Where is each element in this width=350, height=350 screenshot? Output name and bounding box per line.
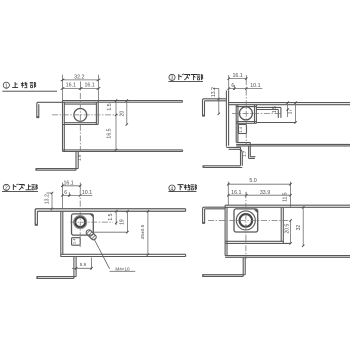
svg-text:16.1: 16.1 <box>84 82 94 88</box>
pocket square <box>234 209 258 232</box>
svg-text:1.4: 1.4 <box>238 126 243 132</box>
label 3 <box>168 74 203 82</box>
step A <box>226 147 240 165</box>
top rail thick double <box>35 209 185 225</box>
svg-text:10.1: 10.1 <box>250 83 260 89</box>
step rail <box>63 149 183 151</box>
dimension lines 32.2 / 16.1 16.1 (panel 1) <box>63 75 99 101</box>
leg2 <box>75 152 77 171</box>
pocket square <box>72 214 94 235</box>
step B + rail2 <box>236 142 250 144</box>
right dimension lines 1.5 / 17 (panel 3) <box>288 103 296 123</box>
rail 1 <box>229 102 350 104</box>
svg-text:20: 20 <box>119 111 125 117</box>
bottom rail <box>61 253 186 255</box>
svg-text:32.2: 32.2 <box>74 74 84 80</box>
svg-text:20.5: 20.5 <box>284 224 290 234</box>
door bottom profile outline (panel 3) <box>202 91 350 168</box>
svg-text:16.1: 16.1 <box>66 82 76 88</box>
svg-text:17: 17 <box>288 109 294 115</box>
svg-text:33.9: 33.9 <box>260 190 270 196</box>
hatched screw clip at 45deg (panel 2) <box>85 229 97 241</box>
door top profile outline (panel 2) <box>35 209 186 279</box>
left hook <box>36 211 38 224</box>
svg-text:10.1: 10.1 <box>82 190 92 196</box>
svg-text:1: 1 <box>5 83 8 89</box>
leg B <box>248 146 250 159</box>
left hook sheet <box>37 102 63 117</box>
screw hole circle (panel 1) <box>74 109 87 122</box>
right dimension lines 1.5 / 19 / 45±0.5 (panel 2) <box>93 211 148 255</box>
right dimension lines 20.5 / 32 (panel 4) <box>291 207 304 246</box>
right dimension lines 1.5 / 20 / 16.5 (panel 1) <box>116 101 127 151</box>
svg-text:1.5: 1.5 <box>108 213 114 220</box>
dimension lines 16.1 / 6 10.1 / 13.2 (panel 2) <box>47 183 93 210</box>
bottom rail <box>225 255 350 257</box>
block left wall <box>60 211 62 257</box>
dimension tick marks (panel 3 top) <box>218 77 248 115</box>
svg-text:16.5: 16.5 <box>106 128 112 138</box>
svg-text:1.9: 1.9 <box>77 154 82 161</box>
svg-text:19: 19 <box>119 219 125 225</box>
frame profile outline (panel 1) <box>35 101 182 171</box>
lip <box>202 274 245 276</box>
sheet A verticals <box>225 91 227 147</box>
lip <box>36 168 79 170</box>
label 1 <box>2 82 57 91</box>
lip A <box>203 165 241 167</box>
svg-text:16.1: 16.1 <box>232 73 242 79</box>
label 2 <box>2 184 38 192</box>
leg2 <box>73 257 75 279</box>
flange right of block <box>256 106 281 108</box>
dimension tick marks (panel 4 top) <box>227 183 292 196</box>
sill frame profile outline (panel 4) <box>202 205 350 276</box>
dimension lines 16.1 / 6 10.1 / 13.2 (panel 3) <box>213 75 262 114</box>
lip <box>36 276 76 278</box>
block <box>235 105 237 143</box>
svg-text:M4×10: M4×10 <box>115 267 130 272</box>
block walls <box>224 205 226 255</box>
svg-text:1.4: 1.4 <box>72 238 77 244</box>
svg-text:3: 3 <box>171 76 174 82</box>
centerlines dash-dot (panel 2) <box>70 190 113 247</box>
centerlines dash-dot (panel 1) <box>52 93 118 152</box>
svg-text:6: 6 <box>231 83 234 89</box>
top rail double <box>63 100 183 102</box>
svg-text:1.7: 1.7 <box>242 150 247 157</box>
svg-text:6: 6 <box>64 190 67 196</box>
label 4 <box>168 184 196 192</box>
svg-text:32: 32 <box>296 225 302 231</box>
svg-text:45±0.5: 45±0.5 <box>140 224 146 239</box>
svg-text:5.9: 5.9 <box>80 262 87 267</box>
block walls <box>62 101 64 152</box>
screw hole circle (panel 3) <box>239 107 252 120</box>
leg2 <box>242 257 244 276</box>
dimension 5.9 below step <box>72 258 92 270</box>
svg-text:2: 2 <box>5 186 8 192</box>
svg-text:1.5: 1.5 <box>272 106 278 113</box>
svg-text:5.0: 5.0 <box>249 178 256 184</box>
small box below <box>239 125 247 134</box>
leader line to M4x10 note <box>94 239 136 272</box>
svg-text:13.2: 13.2 <box>211 87 217 97</box>
svg-text:16.1: 16.1 <box>231 190 241 196</box>
small box <box>72 238 81 246</box>
dimension lines 5.0 / 16.1 33.9 (panel 4) <box>228 182 290 208</box>
centerlines dash-dot (panel 4) <box>208 192 292 259</box>
screw hole double circle (panel 4) <box>236 211 255 230</box>
centerlines dash-dot (panel 3) <box>232 79 282 144</box>
svg-text:16.1: 16.1 <box>63 181 73 187</box>
dimension tick marks (panel 2 top) <box>51 185 82 211</box>
dimension tick marks (panel 1 top) <box>61 79 101 90</box>
tapped hole thick ring (panel 2) <box>74 216 87 229</box>
rail <box>225 204 350 206</box>
svg-text:1.5: 1.5 <box>107 103 113 110</box>
svg-text:13.2: 13.2 <box>44 194 50 204</box>
left hook sheet <box>203 99 227 115</box>
left hook sheet <box>203 207 226 222</box>
svg-text:11.5: 11.5 <box>282 192 288 202</box>
